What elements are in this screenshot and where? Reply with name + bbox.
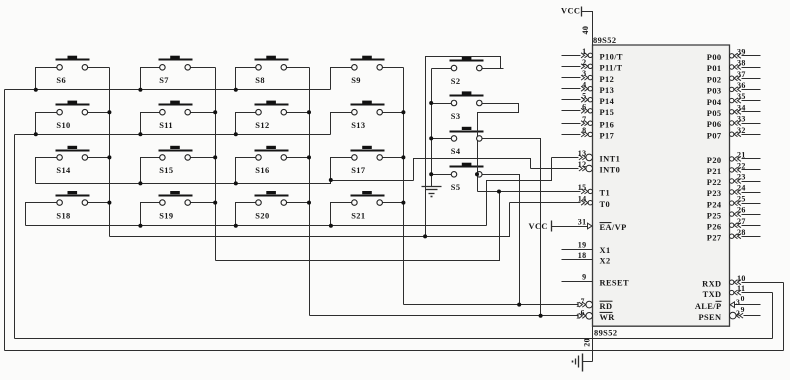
- svg-text:P11/T: P11/T: [600, 64, 623, 73]
- svg-text:23: 23: [737, 173, 746, 182]
- svg-text:4: 4: [582, 80, 586, 89]
- svg-text:S19: S19: [159, 211, 173, 220]
- svg-text:P27: P27: [707, 233, 722, 242]
- svg-text:S13: S13: [351, 121, 365, 130]
- svg-text:0: 0: [741, 294, 745, 303]
- svg-text:28: 28: [737, 228, 746, 237]
- svg-text:S9: S9: [351, 76, 361, 85]
- svg-text:EA/VP: EA/VP: [600, 223, 627, 232]
- svg-text:P25: P25: [707, 211, 722, 220]
- svg-text:P12: P12: [600, 75, 615, 84]
- svg-text:S11: S11: [159, 121, 173, 130]
- svg-text:S3: S3: [451, 112, 461, 121]
- svg-text:T1: T1: [600, 189, 611, 198]
- svg-text:ALE/P: ALE/P: [695, 302, 722, 311]
- svg-text:S12: S12: [255, 121, 269, 130]
- svg-text:S21: S21: [351, 211, 365, 220]
- svg-text:P04: P04: [707, 98, 722, 107]
- svg-text:P17: P17: [600, 132, 615, 141]
- svg-text:P20: P20: [707, 156, 722, 165]
- svg-text:VCC: VCC: [529, 222, 548, 231]
- svg-text:S15: S15: [159, 166, 173, 175]
- svg-text:2: 2: [582, 58, 586, 67]
- svg-text:7: 7: [581, 297, 585, 306]
- svg-text:5: 5: [582, 91, 586, 100]
- svg-text:40: 40: [581, 26, 590, 35]
- svg-text:26: 26: [737, 206, 746, 215]
- svg-text:P15: P15: [600, 108, 615, 117]
- svg-text:S6: S6: [56, 76, 66, 85]
- svg-text:9: 9: [741, 305, 745, 314]
- svg-text:S20: S20: [255, 211, 269, 220]
- svg-text:S16: S16: [255, 166, 269, 175]
- svg-text:P07: P07: [707, 131, 722, 140]
- svg-text:89S52: 89S52: [594, 329, 617, 338]
- svg-text:1: 1: [576, 311, 580, 320]
- svg-text:S2: S2: [451, 77, 461, 86]
- svg-text:89S52: 89S52: [593, 36, 616, 45]
- svg-text:T0: T0: [600, 200, 611, 209]
- svg-text:6: 6: [581, 308, 585, 317]
- svg-text:S4: S4: [451, 147, 461, 156]
- svg-text:S7: S7: [159, 76, 169, 85]
- svg-text:27: 27: [737, 217, 746, 226]
- svg-text:P24: P24: [707, 200, 722, 209]
- svg-text:P13: P13: [600, 86, 615, 95]
- svg-text:3: 3: [736, 298, 740, 307]
- svg-text:22: 22: [737, 162, 746, 171]
- svg-text:11: 11: [737, 284, 745, 293]
- svg-text:S8: S8: [255, 76, 265, 85]
- svg-text:P00: P00: [707, 53, 722, 62]
- svg-text:P02: P02: [707, 75, 722, 84]
- svg-text:31: 31: [578, 218, 587, 227]
- svg-text:RESET: RESET: [600, 278, 629, 287]
- svg-text:INT1: INT1: [600, 155, 621, 164]
- svg-text:WR: WR: [600, 313, 616, 322]
- svg-text:13: 13: [578, 149, 587, 158]
- svg-text:P14: P14: [600, 97, 615, 106]
- svg-text:P26: P26: [707, 222, 722, 231]
- svg-text:TXD: TXD: [703, 290, 722, 299]
- svg-text:S17: S17: [351, 166, 365, 175]
- svg-text:15: 15: [578, 183, 587, 192]
- svg-text:6: 6: [582, 102, 586, 111]
- svg-text:12: 12: [578, 160, 587, 169]
- svg-text:34: 34: [737, 103, 746, 112]
- svg-text:1: 1: [582, 47, 586, 56]
- svg-text:INT0: INT0: [600, 166, 621, 175]
- svg-text:24: 24: [737, 184, 746, 193]
- svg-text:X1: X1: [600, 246, 611, 255]
- svg-text:S18: S18: [56, 211, 70, 220]
- svg-text:VCC: VCC: [561, 7, 580, 16]
- svg-text:X2: X2: [600, 257, 611, 266]
- svg-text:3: 3: [582, 69, 586, 78]
- svg-text:39: 39: [737, 47, 746, 56]
- svg-text:RD: RD: [600, 302, 613, 311]
- svg-text:P05: P05: [707, 109, 722, 118]
- svg-text:7: 7: [582, 115, 586, 124]
- svg-text:P06: P06: [707, 120, 722, 129]
- svg-text:P10/T: P10/T: [600, 53, 623, 62]
- svg-text:P03: P03: [707, 87, 722, 96]
- svg-text:1: 1: [576, 300, 580, 309]
- svg-text:8: 8: [582, 126, 586, 135]
- svg-text:38: 38: [737, 59, 746, 68]
- svg-text:18: 18: [578, 251, 587, 260]
- svg-text:14: 14: [578, 194, 587, 203]
- svg-text:19: 19: [578, 241, 587, 250]
- svg-text:RXD: RXD: [702, 279, 721, 288]
- svg-text:P23: P23: [707, 189, 722, 198]
- svg-text:35: 35: [737, 92, 746, 101]
- svg-text:32: 32: [737, 126, 746, 135]
- svg-text:9: 9: [582, 273, 586, 282]
- svg-text:S14: S14: [56, 166, 71, 175]
- svg-text:20: 20: [583, 338, 592, 347]
- svg-text:2: 2: [736, 308, 740, 317]
- svg-text:PSEN: PSEN: [698, 313, 721, 322]
- svg-text:21: 21: [737, 151, 746, 160]
- svg-text:P16: P16: [600, 120, 615, 129]
- svg-text:25: 25: [737, 195, 746, 204]
- svg-text:P22: P22: [707, 178, 722, 187]
- svg-text:P01: P01: [707, 64, 722, 73]
- svg-text:S10: S10: [56, 121, 70, 130]
- svg-text:37: 37: [737, 70, 746, 79]
- svg-text:P21: P21: [707, 167, 722, 176]
- svg-text:S5: S5: [451, 183, 461, 192]
- svg-text:10: 10: [737, 274, 746, 283]
- svg-text:33: 33: [737, 115, 746, 124]
- svg-text:36: 36: [737, 81, 746, 90]
